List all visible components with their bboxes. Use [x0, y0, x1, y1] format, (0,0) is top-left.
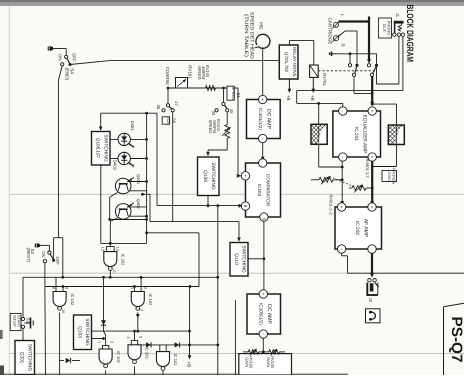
- svg-text:SWITCHING: SWITCHING: [84, 318, 90, 346]
- svg-text:S5: S5: [172, 118, 177, 124]
- svg-text:2: 2: [110, 341, 114, 343]
- svg-text:+: +: [339, 206, 344, 209]
- svg-text:+: +: [243, 174, 248, 177]
- svg-text:DC AMP: DC AMP: [266, 304, 272, 324]
- svg-text:(REST): (REST): [26, 248, 31, 263]
- svg-text:ON: ON: [41, 251, 46, 257]
- svg-text:+: +: [370, 206, 375, 209]
- svg-text:IC104: IC104: [257, 184, 262, 197]
- svg-text:IC 201: IC 201: [353, 127, 359, 141]
- svg-text:OUT: OUT: [382, 24, 387, 33]
- svg-text:IC105(1/2): IC105(1/2): [259, 303, 264, 325]
- svg-text:SPEED DET HEAD: SPEED DET HEAD: [248, 12, 254, 60]
- svg-text:IC 102: IC 102: [121, 254, 126, 267]
- svg-text:SPEED: SPEED: [197, 66, 202, 80]
- svg-text:+: +: [260, 98, 265, 101]
- svg-text:3: 3: [139, 309, 143, 311]
- svg-text:EQUALIZER AMP: EQUALIZER AMP: [362, 115, 368, 154]
- svg-text:S2: S2: [26, 318, 31, 324]
- svg-text:+B: +B: [186, 362, 191, 368]
- svg-text:9: 9: [65, 287, 69, 289]
- svg-text:PHONES: PHONES: [391, 168, 395, 185]
- svg-text:SIZE: SIZE: [166, 116, 171, 125]
- svg-text:RELAY DRIVE: RELAY DRIVE: [292, 47, 297, 77]
- svg-text:RV101: RV101: [188, 65, 193, 79]
- svg-text:/STOP: /STOP: [12, 315, 17, 327]
- svg-text:RV601-1,2: RV601-1,2: [365, 159, 370, 179]
- svg-text:Q701,702: Q701,702: [284, 52, 289, 73]
- svg-text:SWITCHING: SWITCHING: [210, 162, 216, 190]
- svg-text:J1: J1: [395, 13, 400, 18]
- svg-text:(END): (END): [65, 68, 70, 81]
- svg-text:IC101(1/2): IC101(1/2): [258, 108, 263, 130]
- svg-text:30: 30: [156, 105, 161, 110]
- svg-text:SPEED: SPEED: [231, 87, 236, 100]
- svg-text:CARTRIDGE: CARTRIDGE: [327, 18, 332, 45]
- svg-text:IC 102: IC 102: [116, 351, 121, 364]
- svg-text:IC 102: IC 102: [70, 294, 75, 307]
- svg-text:Q108: Q108: [202, 170, 208, 182]
- svg-text:Q103: Q103: [76, 326, 82, 338]
- svg-text:OFF: OFF: [72, 53, 77, 62]
- svg-text:Q401: Q401: [136, 174, 141, 185]
- svg-text:J2: J2: [368, 298, 373, 303]
- svg-text:33: 33: [211, 111, 216, 116]
- svg-text:+B: +B: [286, 95, 291, 101]
- svg-text:DC AMP: DC AMP: [266, 109, 272, 129]
- svg-text:4: 4: [126, 337, 130, 339]
- svg-text:AF AMP: AF AMP: [363, 219, 369, 238]
- svg-text:+: +: [370, 110, 375, 113]
- svg-text:COMPARATOR: COMPARATOR: [266, 174, 271, 207]
- svg-text:RV601-1~2: RV601-1~2: [329, 195, 334, 216]
- svg-text:10: 10: [61, 309, 65, 313]
- svg-text:GAIN: GAIN: [266, 357, 271, 367]
- svg-text:2: 2: [143, 287, 147, 289]
- svg-text:Q402: Q402: [136, 199, 141, 210]
- svg-text:COARSE: COARSE: [165, 67, 170, 86]
- svg-text:SWITCHING: SWITCHING: [102, 134, 108, 162]
- svg-text:Q106,107: Q106,107: [96, 138, 101, 159]
- svg-text:1: 1: [130, 287, 134, 289]
- svg-text:D402: D402: [113, 160, 118, 171]
- svg-text:SWITCHING: SWITCHING: [27, 344, 33, 372]
- svg-text:OFF: OFF: [55, 257, 60, 266]
- svg-text:+: +: [261, 293, 266, 296]
- svg-text:LEVEL: LEVEL: [387, 170, 391, 182]
- svg-text:SWITCHING: SWITCHING: [241, 245, 247, 273]
- svg-text:PS-Q7: PS-Q7: [448, 317, 464, 363]
- svg-text:RY701: RY701: [322, 73, 327, 86]
- svg-text:IC 102: IC 102: [148, 294, 153, 307]
- svg-text:R: R: [341, 44, 346, 47]
- svg-text:8: 8: [52, 287, 56, 289]
- svg-text:ON: ON: [58, 54, 63, 61]
- svg-text:11: 11: [112, 269, 116, 273]
- svg-text:45: 45: [229, 109, 234, 114]
- svg-text:(TURN TABLE): (TURN TABLE): [243, 14, 249, 58]
- svg-text:D401: D401: [130, 121, 135, 132]
- svg-text:SPEED: SPEED: [208, 120, 213, 134]
- svg-text:+B: +B: [310, 95, 315, 101]
- svg-text:Q110: Q110: [233, 253, 239, 265]
- svg-text:5: 5: [139, 336, 143, 338]
- svg-text:Q301: Q301: [19, 352, 25, 364]
- svg-text:1: 1: [97, 341, 101, 343]
- svg-text:13: 13: [101, 247, 105, 251]
- svg-text:12: 12: [115, 247, 119, 251]
- svg-text:GAIN: GAIN: [244, 357, 249, 367]
- svg-text:IC 103: IC 103: [145, 347, 150, 360]
- svg-text:IC 202: IC 202: [354, 221, 360, 235]
- svg-text:IC 101: IC 101: [173, 354, 178, 367]
- svg-text:BLOCK DIAGRAM: BLOCK DIAGRAM: [405, 5, 415, 63]
- svg-text:17: 17: [174, 101, 179, 106]
- svg-text:HG: HG: [257, 22, 263, 29]
